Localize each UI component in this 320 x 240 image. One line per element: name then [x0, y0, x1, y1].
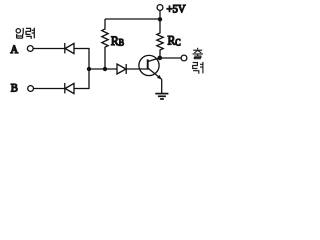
wire D3 to base [126, 68, 147, 70]
svg-text:C: C [175, 37, 181, 48]
junction collector node [158, 56, 163, 61]
diode D3 (anode left, to base) [117, 64, 126, 74]
ground [155, 93, 168, 95]
transistor Q1 collector [148, 58, 159, 62]
wire B to diode D2 [34, 88, 65, 90]
svg-text:+5V: +5V [167, 3, 186, 15]
transistor Q1 base bar [147, 59, 149, 69]
+5V terminal [157, 5, 163, 11]
junction common node [87, 67, 91, 71]
label output (출력) [193, 48, 204, 74]
diode D1 (cathode left) [64, 43, 66, 54]
output terminal [181, 55, 187, 61]
resistor RC [157, 19, 163, 58]
transistor Q1 circle [139, 55, 159, 75]
resistor RB [102, 19, 108, 69]
transistor Q1 emitter [148, 68, 161, 79]
label input (입력) [16, 28, 34, 39]
wire D1 to node [74, 48, 90, 50]
svg-text:B: B [11, 82, 18, 94]
junction RB bottom [103, 67, 107, 71]
junction rail / RC [158, 17, 162, 21]
output wire [160, 57, 181, 59]
emitter arrowhead [157, 75, 162, 80]
svg-text:A: A [10, 43, 18, 55]
wire joining A and B lines [88, 49, 90, 89]
wire A to diode D1 [33, 48, 64, 50]
wire D2 to node [74, 88, 90, 90]
top rail wire [105, 18, 160, 20]
diode D2 (cathode left) [64, 83, 66, 94]
wire common node to diode D3 [89, 68, 117, 70]
terminal A [27, 46, 33, 52]
wire emitter to ground [161, 79, 163, 93]
svg-text:B: B [119, 37, 125, 48]
wire +5V to rail [159, 10, 161, 19]
terminal B [28, 86, 34, 92]
